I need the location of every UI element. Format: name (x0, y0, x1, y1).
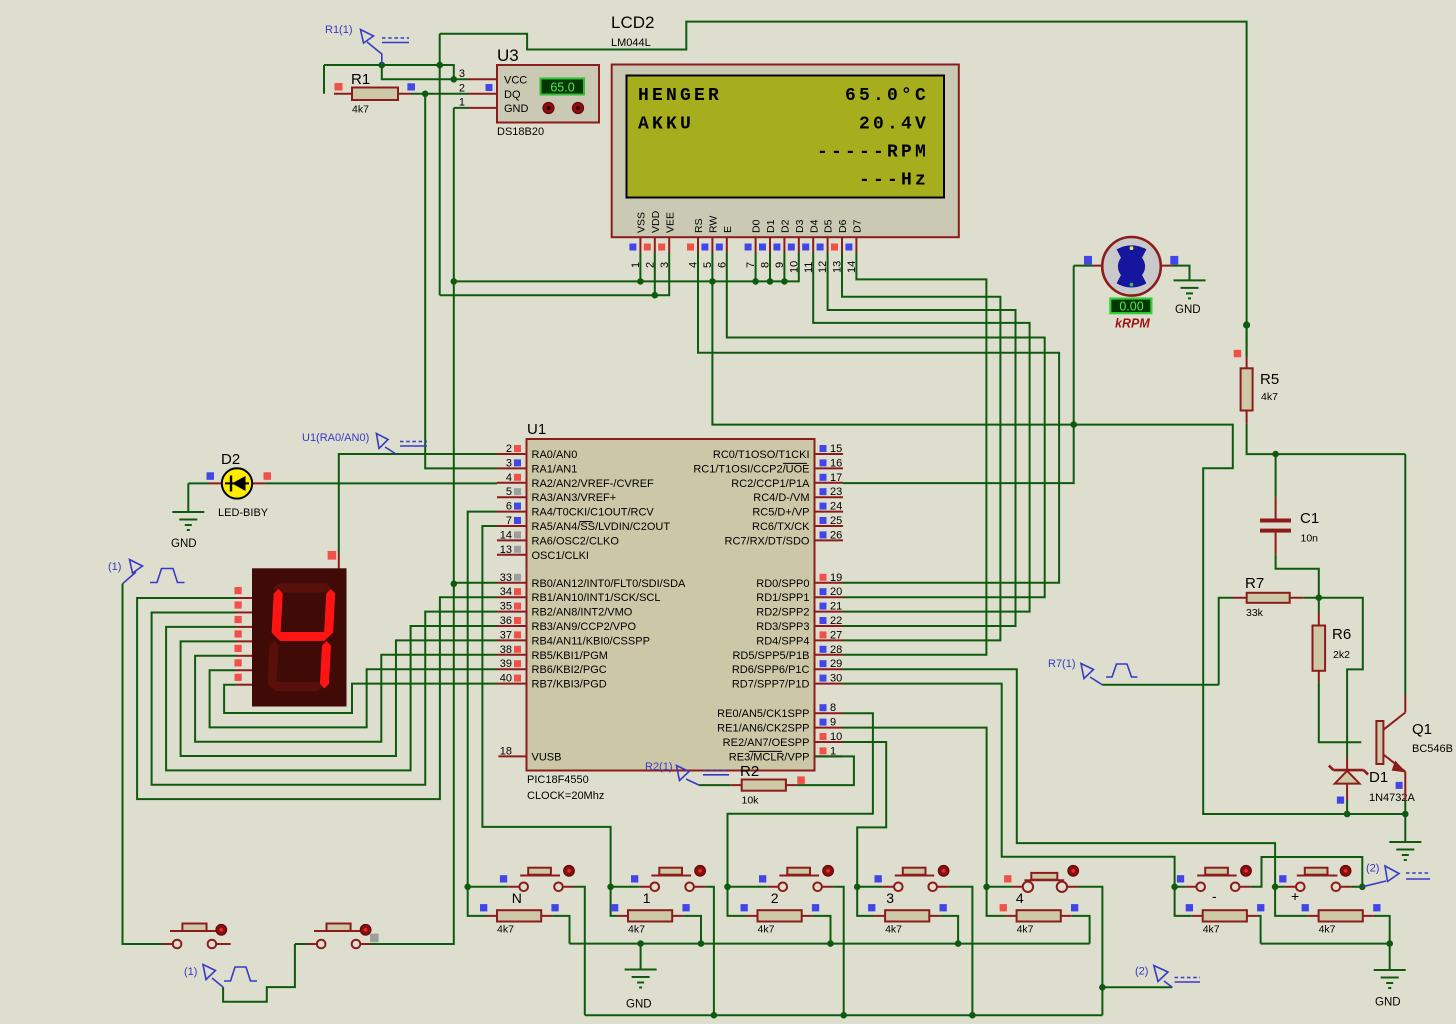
svg-text:39: 39 (500, 658, 512, 670)
push button key1 (163, 931, 231, 944)
svg-text:1N4732A: 1N4732A (1369, 792, 1416, 804)
svg-text:kRPM: kRPM (1115, 317, 1150, 331)
svg-text:20.4V: 20.4V (859, 115, 929, 135)
segment D dark (271, 682, 322, 691)
LCD port labels rotated (636, 210, 864, 233)
svg-text:3: 3 (459, 68, 465, 80)
svg-text:6: 6 (716, 262, 728, 268)
wire LCD D0 drop (755, 253, 757, 282)
svg-text:2: 2 (644, 262, 656, 268)
svg-text:29: 29 (830, 658, 842, 670)
svg-text:27: 27 (830, 629, 842, 641)
svg-text:4k7: 4k7 (758, 924, 775, 936)
ground right bottom (1389, 944, 1391, 970)
wire LCD D5 to U1 RD3 pin22 (828, 253, 1016, 627)
svg-text:D3: D3 (794, 219, 806, 233)
svg-text:16: 16 (830, 457, 842, 469)
svg-text:14: 14 (846, 261, 858, 273)
svg-text:9: 9 (830, 717, 836, 729)
svg-text:2: 2 (506, 443, 512, 455)
svg-text:11: 11 (803, 262, 815, 273)
resistor R5 4k7 (1247, 325, 1406, 454)
ground below Q1 emitter (1404, 814, 1406, 842)
svg-text:D2: D2 (221, 451, 240, 468)
svg-text:4k7: 4k7 (885, 924, 902, 936)
ground centre bottom (640, 944, 642, 970)
svg-text:RD0/SPP0: RD0/SPP0 (756, 578, 809, 590)
svg-text:18: 18 (500, 745, 512, 757)
svg-text:RB7/KBI3/PGD: RB7/KBI3/PGD (532, 679, 607, 691)
U3 adjust buttons (543, 102, 554, 113)
U1 right pin labels (693, 449, 810, 763)
segment C lit (320, 641, 331, 689)
svg-text:4: 4 (1016, 890, 1024, 906)
push button key2 (223, 944, 454, 1002)
svg-text:U3: U3 (497, 46, 519, 65)
svg-text:7: 7 (506, 515, 512, 527)
svg-text:28: 28 (830, 644, 842, 656)
svg-text:RE3/MCLR/VPP: RE3/MCLR/VPP (729, 751, 810, 763)
svg-text:7: 7 (745, 262, 757, 268)
push button 3 with pull resistor (857, 887, 972, 1015)
svg-text:RA1/AN1: RA1/AN1 (532, 463, 578, 475)
svg-text:35: 35 (500, 601, 512, 613)
svg-text:5: 5 (702, 262, 714, 268)
wire LCD D2 drop (783, 253, 785, 282)
svg-text:4k7: 4k7 (352, 104, 369, 116)
svg-text:4: 4 (688, 262, 700, 268)
svg-text:R1: R1 (351, 71, 370, 88)
svg-text:RC5/D+/VP: RC5/D+/VP (752, 507, 809, 519)
U1 left pin state squares (514, 445, 521, 682)
svg-text:RC4/D-/VM: RC4/D-/VM (753, 492, 809, 504)
wire key rail to probe (2) (1102, 986, 1172, 988)
wire LCD RW ground net to motor, U1 RC2 pin17 and right ground bus (712, 253, 1405, 815)
wire U1 RE0 to key 2 column (728, 713, 873, 887)
svg-text:VUSB: VUSB (532, 751, 562, 763)
LCD pin numbers rotated (630, 261, 858, 273)
svg-text:3: 3 (659, 262, 671, 268)
U3 pin numbers (459, 68, 465, 109)
svg-text:RB4/AN11/KBI0/CSSPP: RB4/AN11/KBI0/CSSPP (532, 635, 650, 647)
svg-text:(2): (2) (1135, 966, 1148, 978)
wire U1 RD7 pin30 to key minus column (843, 684, 1175, 887)
svg-text:2k2: 2k2 (1333, 649, 1350, 661)
svg-text:DQ: DQ (504, 89, 521, 101)
wire U1 RB4 to 7-seg pin4 (181, 640, 497, 756)
svg-text:1: 1 (643, 890, 651, 906)
U1 right pin numbers (830, 443, 842, 757)
svg-text:VSS: VSS (636, 212, 648, 233)
push button 1 with pull resistor (611, 887, 714, 1015)
svg-text:DS18B20: DS18B20 (497, 126, 544, 138)
svg-text:RA5/AN4/SS/LVDIN/C2OUT: RA5/AN4/SS/LVDIN/C2OUT (532, 521, 671, 533)
wire U1 RA0 to 7-seg common (339, 454, 497, 553)
svg-text:R2(1): R2(1) (645, 761, 673, 773)
svg-text:RC2/CCP1/P1A: RC2/CCP1/P1A (731, 478, 810, 490)
svg-text:D4: D4 (808, 219, 820, 233)
svg-text:GND: GND (504, 103, 529, 115)
svg-text:+: + (1291, 888, 1299, 904)
svg-text:CLOCK=20Mhz: CLOCK=20Mhz (527, 790, 604, 802)
svg-text:RA2/AN2/VREF-/CVREF: RA2/AN2/VREF-/CVREF (532, 478, 655, 490)
LCD pin stubs 1-14 (640, 237, 856, 252)
svg-text:14: 14 (500, 529, 512, 541)
svg-text:23: 23 (830, 486, 842, 498)
svg-text:LM044L: LM044L (611, 37, 651, 49)
svg-text:N: N (512, 890, 522, 906)
wire U1 RA4 to key N column (468, 512, 497, 916)
push button 4 pressed with pull resistor (987, 887, 1103, 1015)
svg-text:(2): (2) (1366, 863, 1379, 875)
push button minus with pull resistor (1175, 857, 1363, 944)
svg-text:RD5/SPP5/P1B: RD5/SPP5/P1B (732, 650, 809, 662)
svg-text:HENGER: HENGER (638, 86, 722, 106)
wire LCD VSS/RW/D0-D3 ground bus (454, 253, 799, 282)
svg-text:30: 30 (830, 673, 842, 685)
motor tachometer (1094, 265, 1172, 267)
svg-text:65.0°C: 65.0°C (845, 86, 929, 106)
wire U1 RE1 to key 4 column (843, 728, 987, 887)
svg-text:33k: 33k (1246, 607, 1264, 619)
svg-text:RD3/SPP3: RD3/SPP3 (756, 621, 809, 633)
svg-text:(1): (1) (108, 561, 121, 573)
svg-text:10: 10 (830, 731, 842, 743)
svg-text:RD1/SPP1: RD1/SPP1 (756, 592, 809, 604)
wire LCD D7 to U1 RD5 pin28 (843, 253, 986, 655)
wire U1 RB2 to 7-seg pin2 (152, 612, 497, 785)
wire R7 left to probe (1102, 684, 1218, 686)
svg-text:40: 40 (500, 673, 512, 685)
wire U1 RB6 to 7-seg pin6 (210, 669, 497, 727)
svg-text:15: 15 (830, 443, 842, 455)
svg-text:3: 3 (506, 457, 512, 469)
pin SS overline (580, 521, 593, 523)
svg-text:RC0/T1OSO/T1CKI: RC0/T1OSO/T1CKI (713, 449, 810, 461)
svg-text:RE0/AN5/CK1SPP: RE0/AN5/CK1SPP (717, 708, 809, 720)
wire R7 node to D1 cathode (1319, 598, 1363, 757)
svg-text:GND: GND (626, 999, 652, 1011)
wire LCD D6 to U1 RD4 pin27 (842, 253, 1000, 641)
svg-text:GND: GND (171, 538, 197, 550)
wire key ground bus (570, 943, 1090, 945)
svg-text:4k7: 4k7 (1203, 924, 1220, 936)
node junction dots top (379, 62, 386, 69)
svg-text:RE2/AN7/OESPP: RE2/AN7/OESPP (723, 737, 810, 749)
svg-text:PIC18F4550: PIC18F4550 (527, 774, 589, 786)
svg-text:4k7: 4k7 (1261, 391, 1278, 403)
wire U1 RD6 pin29 to key plus column (843, 669, 1275, 887)
svg-text:37: 37 (500, 629, 512, 641)
svg-text:D0: D0 (751, 219, 763, 233)
svg-text:26: 26 (830, 529, 842, 541)
7-segment display showing 4 (338, 553, 340, 568)
svg-text:Q1: Q1 (1412, 721, 1432, 738)
U1 right pin stubs RC RD RE (815, 454, 844, 756)
svg-text:33: 33 (500, 572, 512, 584)
wire key sense rail (585, 1014, 1103, 1016)
svg-text:-: - (1212, 888, 1217, 904)
svg-text:10n: 10n (1301, 533, 1319, 545)
svg-text:4k7: 4k7 (1319, 924, 1336, 936)
resistor R6 2k2 (1319, 598, 1362, 743)
svg-text:5: 5 (506, 486, 512, 498)
svg-text:8: 8 (830, 702, 836, 714)
svg-text:VEE: VEE (664, 212, 676, 233)
svg-text:U1: U1 (527, 421, 546, 438)
wire LCD D4 to U1 RD2 pin21 (813, 253, 1029, 612)
wire LCD pin1 VSS stub drop (639, 253, 641, 282)
pin UOE overline (783, 462, 807, 464)
svg-text:U1(RA0/AN0): U1(RA0/AN0) (302, 432, 369, 444)
svg-text:(1): (1) (184, 966, 197, 978)
svg-text:R5: R5 (1260, 371, 1279, 388)
segment E dark (267, 641, 278, 689)
svg-text:RD4/SPP4: RD4/SPP4 (756, 635, 809, 647)
U3 temperature readout 65.0 (541, 79, 585, 95)
svg-text:-----RPM: -----RPM (817, 143, 929, 163)
push button N with pull resistor (468, 887, 585, 1015)
motor kRPM readout (1110, 299, 1151, 314)
wire U1 RB7 to 7-seg pin7 (224, 684, 497, 713)
svg-text:R2: R2 (740, 763, 759, 780)
svg-text:RB6/KBI2/PGC: RB6/KBI2/PGC (532, 664, 607, 676)
svg-text:21: 21 (830, 601, 842, 613)
svg-text:65.0: 65.0 (550, 81, 574, 95)
svg-text:D7: D7 (852, 219, 864, 233)
transistor Q1 BC546B (1404, 454, 1406, 695)
svg-text:RB5/KBI1/PGM: RB5/KBI1/PGM (532, 650, 608, 662)
svg-text:R6: R6 (1332, 626, 1351, 643)
wire DQ net R1 right to U3 DQ and down to U1 RA1 (412, 94, 498, 469)
wire U1 RB3 to 7-seg pin3 (166, 626, 497, 770)
svg-text:4k7: 4k7 (628, 924, 645, 936)
capacitor C1 10n (1276, 454, 1319, 598)
svg-text:RB2/AN8/INT2/VMO: RB2/AN8/INT2/VMO (532, 607, 633, 619)
svg-text:RB1/AN10/INT1/SCK/SCL: RB1/AN10/INT1/SCK/SCL (532, 592, 661, 604)
svg-text:13: 13 (500, 544, 512, 556)
svg-text:LCD2: LCD2 (611, 13, 654, 32)
svg-text:RW: RW (708, 216, 720, 233)
U3 pin stubs (468, 78, 497, 80)
svg-text:17: 17 (830, 472, 842, 484)
LCD pin state squares (629, 244, 852, 251)
svg-text:RA6/OSC2/CLKO: RA6/OSC2/CLKO (532, 535, 620, 547)
svg-text:RC7/RX/DT/SDO: RC7/RX/DT/SDO (725, 535, 810, 547)
svg-text:D2: D2 (780, 219, 792, 233)
U1 left pin labels (532, 449, 687, 763)
svg-text:2: 2 (459, 83, 465, 95)
svg-text:RA0/AN0: RA0/AN0 (532, 449, 578, 461)
svg-text:36: 36 (500, 615, 512, 627)
svg-text:6: 6 (506, 501, 512, 513)
svg-text:22: 22 (830, 615, 842, 627)
svg-text:24: 24 (830, 501, 842, 513)
wire U1 RB0 to key net (454, 582, 497, 584)
wire +5V top loop from R1 to U3 VCC and LCD2 top rail to R5 (324, 22, 1247, 357)
svg-text:8: 8 (760, 262, 772, 268)
svg-text:10k: 10k (742, 795, 760, 807)
svg-text:34: 34 (500, 586, 512, 598)
wire U1 RE2 to key 3 column (843, 742, 886, 887)
svg-text:12: 12 (817, 261, 829, 273)
segment G lit (275, 632, 329, 641)
svg-text:1: 1 (630, 262, 642, 268)
svg-text:RD6/SPP6/P1C: RD6/SPP6/P1C (732, 664, 810, 676)
wire minus plus ground bus (1261, 943, 1390, 945)
svg-text:RD7/SPP7/P1D: RD7/SPP7/P1D (732, 679, 810, 691)
svg-text:D5: D5 (823, 219, 835, 233)
svg-text:RC1/T1OSI/CCP2/UOE: RC1/T1OSI/CCP2/UOE (693, 463, 809, 475)
svg-text:RC6/TX/CK: RC6/TX/CK (752, 521, 810, 533)
svg-text:4k7: 4k7 (497, 924, 514, 936)
U1 left pin numbers (500, 443, 512, 757)
svg-text:---Hz: ---Hz (859, 171, 929, 191)
svg-text:GND: GND (1375, 997, 1401, 1009)
segment B lit (324, 589, 336, 637)
svg-text:0.00: 0.00 (1119, 300, 1143, 314)
wire U3 GND long vertical down to bottom button (379, 108, 468, 944)
svg-text:D6: D6 (837, 219, 849, 233)
svg-text:VCC: VCC (504, 75, 527, 87)
svg-text:RB0/AN12/INT0/FLT0/SDI/SDA: RB0/AN12/INT0/FLT0/SDI/SDA (532, 578, 687, 590)
svg-text:RS: RS (693, 218, 705, 233)
svg-text:RB3/AN9/CCP2/VPO: RB3/AN9/CCP2/VPO (532, 621, 637, 633)
segment A dark (274, 584, 331, 593)
pin MCLR overline (749, 750, 782, 752)
diode D1 1N4732A zener (1346, 757, 1348, 800)
svg-text:C1: C1 (1300, 510, 1319, 527)
push button 2 with pull resistor (728, 887, 844, 1015)
segment F lit (271, 589, 283, 637)
wire LCD VDD/VEE supply bus (440, 253, 670, 296)
wire key1 to probe (1) (123, 584, 164, 944)
op-amp U1 PIC18F4550 body (527, 439, 815, 771)
svg-text:R1(1): R1(1) (325, 24, 353, 36)
resistor R7 33k (1219, 598, 1319, 685)
svg-text:D1: D1 (765, 219, 777, 233)
svg-text:OSC1/CLKI: OSC1/CLKI (532, 550, 589, 562)
ground under D2 (187, 483, 189, 512)
wire LCD E to U1 RD1 pin20 (727, 253, 1045, 598)
svg-text:4k7: 4k7 (1017, 924, 1034, 936)
wire LCD RS to U1 RD0 pin19 (698, 253, 1059, 583)
svg-text:13: 13 (832, 261, 844, 273)
resistor R2 10k on MCLR (699, 756, 854, 785)
svg-text:3: 3 (886, 890, 894, 906)
svg-text:19: 19 (830, 572, 842, 584)
svg-text:25: 25 (830, 515, 842, 527)
svg-text:BC546B: BC546B (1412, 743, 1453, 755)
svg-text:RE1/AN6/CK2SPP: RE1/AN6/CK2SPP (717, 723, 809, 735)
U3 DQ state square (486, 84, 493, 91)
svg-text:9: 9 (774, 262, 786, 268)
svg-text:D1: D1 (1369, 769, 1388, 786)
U1 right pin state squares (820, 445, 827, 754)
svg-text:2: 2 (771, 890, 779, 906)
svg-text:RA4/T0CKI/C1OUT/RCV: RA4/T0CKI/C1OUT/RCV (532, 507, 655, 519)
ground at motor (1172, 266, 1190, 281)
svg-text:20: 20 (830, 586, 842, 598)
svg-text:4: 4 (506, 472, 512, 484)
svg-text:VDD: VDD (650, 210, 662, 233)
svg-text:AKKU: AKKU (638, 115, 694, 135)
push button plus with pull resistor (1275, 887, 1390, 944)
svg-text:RA3/AN3/VREF+: RA3/AN3/VREF+ (532, 492, 617, 504)
svg-text:RD2/SPP2: RD2/SPP2 (756, 607, 809, 619)
resistor R1 4k7 (334, 93, 412, 95)
wire LCD D1 drop (769, 253, 771, 282)
svg-text:R7(1): R7(1) (1048, 658, 1076, 670)
wire U1 RB5 to 7-seg pin5 (195, 655, 497, 742)
wire U1 RA5 to key 1 column (482, 526, 617, 916)
U1 left pin stubs RA (497, 454, 527, 756)
wire U1 RB1 to 7-seg pin1 (137, 597, 497, 799)
svg-text:38: 38 (500, 644, 512, 656)
svg-text:10: 10 (788, 261, 800, 273)
svg-text:LED-BIBY: LED-BIBY (218, 507, 269, 519)
svg-text:1: 1 (459, 97, 465, 109)
svg-text:E: E (722, 226, 734, 233)
svg-text:GND: GND (1175, 304, 1201, 316)
svg-text:R7: R7 (1245, 575, 1264, 592)
